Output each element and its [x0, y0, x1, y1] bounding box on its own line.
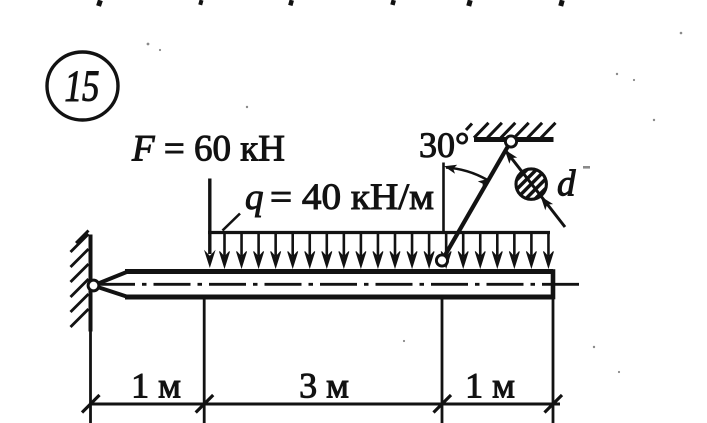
wall support (left) hatching — [71, 231, 89, 328]
dimension tick at beam end — [545, 395, 563, 413]
ceiling support line — [474, 137, 554, 142]
distributed load arrows — [220, 233, 554, 268]
beam (tapered left end + outline) — [95, 269, 554, 299]
pin at rod bottom on beam — [436, 255, 447, 266]
svg-text:15: 15 — [65, 62, 100, 111]
dimension line — [89, 403, 560, 406]
dimension tick at 1 m — [196, 395, 214, 413]
extension line below wall — [89, 332, 92, 423]
label d — [557, 164, 576, 205]
svg-text:d: d — [557, 164, 576, 205]
dimension label 1 m (left) — [131, 366, 181, 406]
svg-text:q: q — [245, 177, 264, 218]
label F = 60 kN — [131, 129, 285, 170]
svg-text:1 м: 1 м — [465, 366, 515, 406]
ceiling support hatching — [466, 123, 556, 138]
rod (inclined strut) — [442, 141, 511, 261]
label 30 degrees — [419, 125, 469, 165]
svg-text:= 40 кН/м: = 40 кН/м — [270, 177, 434, 218]
rod cross-section circle with hatching (diameter d) — [508, 161, 555, 208]
scan noise: cropped text descenders at top edge — [96, 0, 565, 7]
label q = 40 kN/m — [245, 177, 434, 218]
q leader line — [223, 214, 241, 231]
extension line at 4 m — [441, 299, 444, 423]
pin at wall — [88, 280, 99, 291]
pin at ceiling — [505, 136, 516, 147]
dimension tick at 4 m — [434, 395, 452, 413]
svg-text:30°: 30° — [419, 125, 469, 165]
circled problem number 15 — [47, 52, 118, 120]
wall support vertical face line — [89, 235, 93, 332]
force F arrow — [204, 179, 216, 269]
scan noise: faint specks — [147, 32, 683, 373]
beam centerline (dash-dot) — [98, 283, 585, 286]
angle arc with double arrowheads — [444, 165, 490, 189]
dimension label 3 m — [299, 366, 349, 406]
vertical reference line for angle — [442, 163, 445, 233]
svg-text:F = 60 кН: F = 60 кН — [131, 129, 285, 170]
svg-text:3 м: 3 м — [299, 366, 349, 406]
section leader line through cross-section — [505, 150, 565, 227]
extension line at beam end — [552, 299, 555, 423]
distributed load top line — [208, 231, 550, 234]
dimension tick at wall — [82, 395, 100, 413]
extension line at 1 m — [203, 299, 206, 423]
dimension label 1 m (right) — [465, 366, 515, 406]
svg-text:1 м: 1 м — [131, 366, 181, 406]
